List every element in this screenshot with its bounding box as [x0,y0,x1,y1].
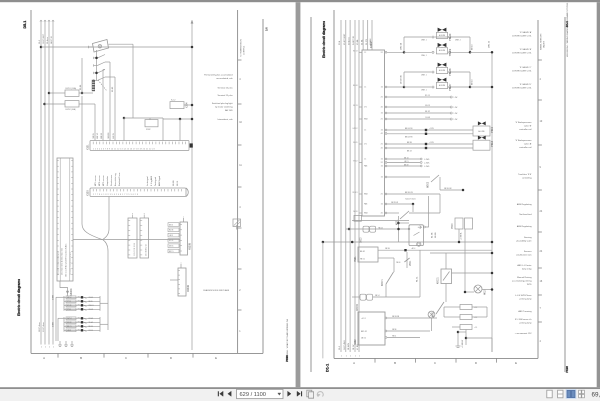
svg-text:accumulating priming: accumulating priming [512,279,532,282]
two page continuous icon [579,390,582,393]
svg-text:9B 14: 9B 14 [392,335,396,337]
svg-text:GY 08: GY 08 [67,305,71,307]
svg-text:LW 1/2: LW 1/2 [353,128,358,130]
lower box pins [385,317,387,319]
svg-text:Intermittent, cab: Intermittent, cab [218,118,234,121]
contact K6011 [436,302,444,314]
svg-text:BB 4/1: BB 4/1 [360,251,365,253]
svg-text:CONTROLLER COIL: CONTROLLER COIL [512,35,532,37]
svg-text:Y6108: Y6108 [448,68,452,76]
node trunk/feed [191,46,194,49]
terminal square after X301 [190,143,193,147]
svg-text:F6251 (1.6A): F6251 (1.6A) [66,87,77,90]
svg-text:W502: W502 [427,181,429,188]
svg-text:9B 14: 9B 14 [177,180,179,186]
svg-text:accumulated, cab: accumulated, cab [216,77,233,80]
svg-text:BB7 4/1: BB7 4/1 [361,331,367,333]
mechanical link dashed [98,80,107,91]
svg-text:1: 1 [45,347,46,349]
diode row left label box [66,329,76,332]
svg-text:Electric circuit diagrams: Electric circuit diagrams [17,279,21,316]
svg-text:-1.5W/L: -1.5W/L [424,162,430,164]
svg-text:9B 9B: 9B 9B [435,232,437,238]
svg-text:629 / 1100: 629 / 1100 [240,392,266,398]
svg-text:AB 13/6: AB 13/6 [225,109,233,112]
svg-text:30 4mm: 30 4mm [47,37,49,44]
svg-text:Not fixed tied: Not fixed tied [519,213,532,216]
svg-text:WHEEL SENSORS: WHEEL SENSORS [540,33,542,50]
svg-text:anti-Busters lock: anti-Busters lock [516,253,532,256]
svg-text:WH 4/1: WH 4/1 [89,305,94,307]
warning lamp H610 [474,285,482,293]
right window edge bar [597,2,600,387]
feed wire to ignition switch and column bus [41,46,192,48]
svg-text:1WH, 1: 1WH, 1 [421,75,427,77]
right page frame outer right border [564,17,566,372]
svg-text:1: 1 [355,355,356,357]
wire from A6304 down [60,281,68,292]
svg-text:LB 08: LB 08 [67,330,71,332]
wire X302 to strip [162,118,164,141]
svg-text:'S' Brakepressure: 'S' Brakepressure [515,121,532,124]
svg-text:VALVES: VALVES [543,40,546,48]
page number combo box [237,389,284,398]
svg-text:1WH, 1: 1WH, 1 [421,40,427,42]
fuse F6252 [43,103,46,106]
diode cluster frame [63,296,65,311]
svg-text:GN 13: GN 13 [425,105,430,107]
svg-text:1 2 3 4 5 6 7 8 9 10 11 12 13: 1 2 3 4 5 6 7 8 9 10 11 12 13 14 15 16 1… [93,148,155,150]
ground symbols bottom left [59,341,61,345]
wire RL 5L down [419,250,421,297]
svg-text:B: B [394,361,396,365]
wire from relay right up [425,196,428,227]
svg-text:Touchline 'S'S': Touchline 'S'S' [518,174,532,176]
connector X6306 top mark [180,264,182,268]
svg-text:X6308: X6308 [189,242,192,250]
svg-text:K602: K602 [354,339,357,345]
svg-text:plausibility valve: plausibility valve [516,239,532,242]
svg-text:Terminal 15 plus: Terminal 15 plus [217,87,232,90]
svg-text:by motor switching: by motor switching [215,105,233,108]
svg-text:Switched plus fog light: Switched plus fog light [212,102,233,105]
svg-text:ABS Signal: ABS Signal [158,175,161,186]
svg-text:2 7 7 8 4 1 8 9 3 5 6 2 4 8 1: 2 7 7 8 4 1 8 9 3 5 6 2 4 8 1 7 9 5 3 6 … [93,194,138,196]
svg-text:lamp relay: lamp relay [522,267,533,270]
valve group 1 common return [469,37,471,52]
relay K6031 [441,269,452,284]
svg-text:Y6107: Y6107 [448,83,452,91]
contact blades of S6201 [98,55,106,58]
wire into X6306 [170,279,178,281]
svg-text:C: C [434,361,436,365]
valve row 4 wiring [404,86,432,88]
bus wire 15 BT [44,20,46,340]
junction wire row 253 [430,252,492,254]
svg-text:RD 4/1: RD 4/1 [353,192,358,194]
svg-text:1WH, 1: 1WH, 1 [421,55,427,57]
svg-text:2 4 6 8 10 12 14: 2 4 6 8 10 12 14 [146,244,148,256]
svg-text:1 2 3 4 5 6 7 8 9 10 11 12 13: 1 2 3 4 5 6 7 8 9 10 11 12 13 14 15 [58,252,60,275]
diode row wire [64,296,100,298]
switch W502 [387,176,430,178]
svg-text:LW 08: LW 08 [353,211,358,213]
svg-text:1: 1 [49,347,50,349]
svg-text:YE 4/1: YE 4/1 [89,322,94,324]
pressure switch P601 [358,247,378,262]
lamp wires [465,291,474,293]
svg-text:2/1: 2/1 [381,97,383,99]
svg-text:2T1: 2T1 [364,144,367,146]
svg-text:RL 5L: RL 5L [417,276,419,282]
wire ECU pin to valve group 2 [387,86,404,88]
svg-text:priming lamp: priming lamp [520,297,533,300]
svg-text:15 BL: 15 BL [357,39,359,45]
lower box output wires [387,317,437,319]
diode row left label box [66,304,76,307]
svg-text:31 BT 4mm: 31 BT 4mm [43,322,45,332]
svg-text:D: D [475,361,477,365]
svg-text:1 3 5 7 9 11 13 15: 1 3 5 7 9 11 13 15 [134,243,136,256]
diode row wire [64,304,100,306]
svg-text:priming lamp: priming lamp [520,321,533,324]
connector X6305 top mark [143,215,145,219]
solenoid valve Y6110 [438,28,442,32]
single page view icon [547,390,552,398]
svg-text:MP2 sensor: MP2 sensor [99,175,101,186]
svg-text:A6304: A6304 [69,288,73,296]
svg-text:ABS Regulating: ABS Regulating [517,203,533,206]
svg-text:2/1: 2/1 [381,119,383,121]
svg-text:CONTROLLER COIL: CONTROLLER COIL [512,52,532,54]
svg-text:Bremslicht sig: Bremslicht sig [114,174,117,186]
svg-text:SB 13: SB 13 [353,105,357,107]
svg-text:V601: V601 [410,260,412,266]
svg-text:BK 13: BK 13 [169,224,173,226]
svg-text:BK 2.5: BK 2.5 [169,251,174,253]
wire row BB 5B LW [387,193,440,195]
svg-text:S'L'-SW-sense t-h: S'L'-SW-sense t-h [515,318,532,321]
svg-text:Lenksignal: Lenksignal [147,176,149,186]
svg-text:X302: X302 [146,129,150,131]
svg-text:X300: X300 [87,190,90,196]
svg-text:+1.5: +1.5 [474,327,477,329]
wire row to strip right side [163,118,192,120]
svg-text:9B 9B LW: 9B 9B LW [444,188,452,190]
svg-text:+0 1/1: +0 1/1 [361,318,366,320]
svg-text:LB 2.5: LB 2.5 [404,161,409,163]
toolbar background [0,389,600,401]
svg-text:-1.5W/L: -1.5W/L [424,166,430,168]
svg-text:05.05: 05.05 [112,86,114,92]
svg-text:CHASSIS NODE MK70 ABS: CHASSIS NODE MK70 ABS [203,289,230,292]
svg-text:4B 4B 08: 4B 4B 08 [401,75,403,84]
svg-text:LW 1/2: LW 1/2 [67,318,72,320]
valve row 3 wiring [404,71,432,73]
svg-text:30 4mm: 30 4mm [348,37,350,45]
svg-text:2L BT 4MM: 2L BT 4MM [344,340,346,350]
left page frame outer right border [262,19,264,353]
svg-text:controller coil: controller coil [519,146,532,149]
svg-text:4/1: 4/1 [381,133,383,135]
svg-text:D: D [170,356,172,360]
diode row wire [64,329,100,331]
svg-text:VT 15: VT 15 [67,301,71,303]
inline connector X302 [145,120,158,127]
svg-text:X6034: X6034 [357,304,359,311]
S-bend wire down to diode clusters [103,240,109,331]
ABS ECU K602 body [362,50,385,216]
svg-text:P601: P601 [354,256,357,262]
svg-text:SB 13: SB 13 [404,157,408,159]
svg-text:Permanently plus accumulated: Permanently plus accumulated [204,74,233,77]
svg-text:VT 05: VT 05 [67,309,71,311]
svg-text:15 BT 0607: 15 BT 0607 [43,34,45,44]
svg-text:E: E [215,356,217,360]
svg-text:'S' VALVE 'A': 'S' VALVE 'A' [520,31,533,34]
svg-text:1: 1 [359,355,360,357]
svg-text:valve 'A': valve 'A' [524,142,532,145]
svg-text:mfb v ca 8 Bond 1008 munition: mfb v ca 8 Bond 1008 munition 8 Ann [64,244,67,277]
svg-text:C: C [125,356,127,360]
svg-text:A: A [353,361,355,365]
brake valve Y616 [478,136,482,140]
horizontal distribution wire [73,239,180,241]
wires into connector strip X301 [102,70,104,141]
svg-text:S+12: S+12 [171,99,175,101]
wire from W502 junction [440,189,463,191]
connector X6308 body [180,222,188,255]
svg-text:1/2: 1/2 [381,130,383,132]
svg-text:1WH, 1: 1WH, 1 [421,90,427,92]
switch output wire right to column [109,43,134,45]
right bus wires [340,20,342,352]
svg-text:8B 13: 8B 13 [471,79,473,85]
svg-text:30 4: 30 4 [339,346,341,350]
svg-text:OG 08: OG 08 [425,117,430,119]
diode row wire [64,300,100,302]
svg-text:ABS Regulating: ABS Regulating [517,225,533,228]
relay box S+12 (X304) [170,102,184,109]
connector X6305 body [140,218,149,258]
svg-text:Y603: Y603 [452,223,454,229]
wire column from switch [132,44,134,118]
solenoid Y603 block [455,218,463,229]
svg-text:2T1: 2T1 [364,107,367,109]
svg-text:69,2: 69,2 [592,391,600,398]
left page frame inner right border [237,10,239,353]
svg-text:A: A [43,356,45,360]
ECU pin circles right edge [385,51,387,53]
svg-text:1/2: 1/2 [381,159,383,161]
svg-text:Drucksensor: Drucksensor [111,174,113,186]
svg-text:1.5W: 1.5W [454,97,458,99]
svg-text:X301: X301 [87,144,90,150]
wire down from K621 node [398,216,400,242]
connector X6308 top mark [183,218,185,222]
continuous view icon [558,390,563,398]
svg-text:'S' VALVE 'B': 'S' VALVE 'B' [520,48,533,51]
svg-text:54 BT 30: 54 BT 30 [353,35,355,45]
bus wire 30 GY [48,20,50,340]
diode row left label box [66,300,76,303]
svg-text:RD 08: RD 08 [169,230,173,232]
svg-text:F6252 (16A): F6252 (16A) [66,108,76,111]
lamp H601 [428,311,435,318]
page history icon [307,390,312,397]
svg-text:BB 05: BB 05 [89,301,93,303]
svg-text:9B 1/1: 9B 1/1 [360,259,365,261]
switch designator S6201 [92,80,95,91]
svg-text:1/2: 1/2 [381,113,383,115]
rotate icon (disabled) [317,392,323,397]
wire row to K621 [387,203,413,205]
svg-text:54 BT 30: 54 BT 30 [51,36,53,44]
wire from switch down to fuse row [81,58,83,93]
svg-text:BB 13: BB 13 [407,151,412,153]
inline connector X6034 [352,296,360,298]
svg-text:4812162114 - WIRING DIAGRAM AB: 4812162114 - WIRING DIAGRAM ABS BRAKE SY… [566,2,569,57]
svg-text:Y615: Y615 [490,126,494,133]
svg-text:L-L-S SVR-Phase: L-L-S SVR-Phase [515,295,532,297]
diode element [81,304,83,306]
svg-text:Electric circuit diagrams: Electric circuit diagrams [322,21,326,58]
contact common vertical [96,50,98,81]
svg-text:1 2 3 4 5 6 7 8 9 10 11 12 13: 1 2 3 4 5 6 7 8 9 10 11 12 13 14 15 [70,252,72,275]
svg-text:BK 08: BK 08 [353,85,357,87]
resistor rows [460,305,472,310]
svg-text:2/1: 2/1 [381,52,383,54]
svg-text:4WL 13: 4WL 13 [488,40,490,48]
svg-text:SB 1/2: SB 1/2 [425,111,430,113]
right page frame bottom border [334,357,538,359]
svg-text:WH 08: WH 08 [108,133,110,139]
svg-text:1.5W: 1.5W [454,107,458,109]
svg-text:BN 2.5: BN 2.5 [67,326,72,328]
svg-text:1: 1 [53,347,54,349]
diode element [81,300,83,302]
svg-text:BB 5B LW: BB 5B LW [405,192,413,194]
svg-text:SB 05: SB 05 [353,142,357,144]
svg-text:SB 05: SB 05 [93,133,95,138]
junction wire row 242 [323,241,492,243]
connector strip X300 [90,188,186,197]
node X302 feed [123,117,126,120]
cluster2 output to trunk [100,323,108,325]
wires down from Y603 [458,229,460,242]
right page frame outer left border [310,17,312,372]
solenoid valve Y6109 [438,43,442,47]
sensor rows 2WR [387,158,420,160]
svg-text:2WH, 2: 2WH, 2 [455,40,461,42]
svg-text:controller coil: controller coil [519,128,532,131]
solenoid valve Y6108 [438,63,442,67]
valve row 2 wiring [404,51,432,53]
svg-text:4/1: 4/1 [381,213,383,215]
svg-text:BL 9B: BL 9B [432,232,434,238]
svg-text:76/98: 76/98 [285,355,289,362]
connector strip X301 [90,141,189,151]
diode row left label box [66,325,76,328]
switch pin stub left [89,46,93,48]
svg-text:CONTROL: CONTROL [244,46,246,55]
svg-text:OG 05: OG 05 [89,297,94,299]
svg-text:4 15 8 22 9 17 3 11 6 19 2 13: 4 15 8 22 9 17 3 11 6 19 2 13 7 21 5 [61,248,63,275]
svg-text:2B LB: 2B LB [396,262,400,264]
small box on bus top [354,215,361,221]
svg-text:+B 14: +B 14 [411,248,415,250]
svg-text:31 BL: 31 BL [361,39,363,45]
diode row wire [64,321,100,323]
svg-text:GN 05: GN 05 [169,246,174,248]
svg-text:+ uncomment 12V: + uncomment 12V [515,332,533,335]
svg-text:1: 1 [350,355,351,357]
ground symbol bottom [457,332,459,346]
svg-text:Hauptrelais: Hauptrelais [106,176,109,186]
svg-text:+1 9B LW: +1 9B LW [462,340,464,348]
svg-text:1: 1 [41,347,42,349]
svg-text:1.5W: 1.5W [454,119,458,121]
svg-text:D1-1: D1-1 [325,364,329,372]
arrow head on trunk top [191,20,193,23]
solenoid valve Y6107 [438,78,442,82]
svg-text:VT 1/2: VT 1/2 [353,161,358,163]
connector A6304 body [57,158,73,281]
gap between the two pages [296,2,301,387]
window top border [0,0,600,2]
svg-text:X6306: X6306 [187,284,190,292]
svg-text:BB 08: BB 08 [404,164,408,166]
vertical trunk wire right of switch [191,22,193,350]
svg-text:3B 4MM: 3B 4MM [348,343,350,350]
diode row wire [64,325,100,327]
svg-text:BB LB 9B: BB LB 9B [405,137,413,139]
svg-text:30 BT 4mm: 30 BT 4mm [39,322,41,332]
contact output stubs [105,61,110,63]
svg-text:2B 1/2: 2B 1/2 [361,338,366,340]
svg-text:Sensors: Sensors [524,250,532,253]
connector X6306 body [178,268,186,296]
diode cluster frame [63,317,65,332]
svg-text:9B 14: 9B 14 [375,295,379,297]
svg-text:valve 'B': valve 'B' [524,125,532,127]
svg-text:W7D: W7D [527,284,532,286]
brake valve Y615 [478,121,482,125]
node on bus 30 for F6251 [48,92,51,95]
bus wire 30 4mm2 [40,20,42,340]
valve row 1 wiring [404,36,432,38]
svg-text:BB 1/2: BB 1/2 [97,133,99,139]
diode row left label box [66,296,76,299]
svg-text:B: B [80,356,82,360]
diode row left label box [66,308,76,311]
svg-text:'S' VALVE 'C': 'S' VALVE 'C' [519,66,532,69]
svg-text:controlling: controlling [522,176,532,179]
svg-text:CONTROLLER COIL: CONTROLLER COIL [512,70,532,72]
svg-text:BB LB 9B: BB LB 9B [405,128,413,130]
node junction on bus 30 [40,46,43,49]
svg-text:30 4: 30 4 [39,40,41,44]
relay K6011 with motor [409,225,423,246]
bus wire 54 BT [52,20,54,340]
valve group 2 common return [469,72,471,87]
bus wire top ticks [40,20,41,22]
svg-text:BN 08: BN 08 [101,133,103,138]
right page row ticks [538,59,542,61]
svg-text:MP1 sensor: MP1 sensor [95,175,97,186]
svg-text:D5.1: D5.1 [23,21,27,29]
svg-text:Y616: Y616 [490,140,494,147]
